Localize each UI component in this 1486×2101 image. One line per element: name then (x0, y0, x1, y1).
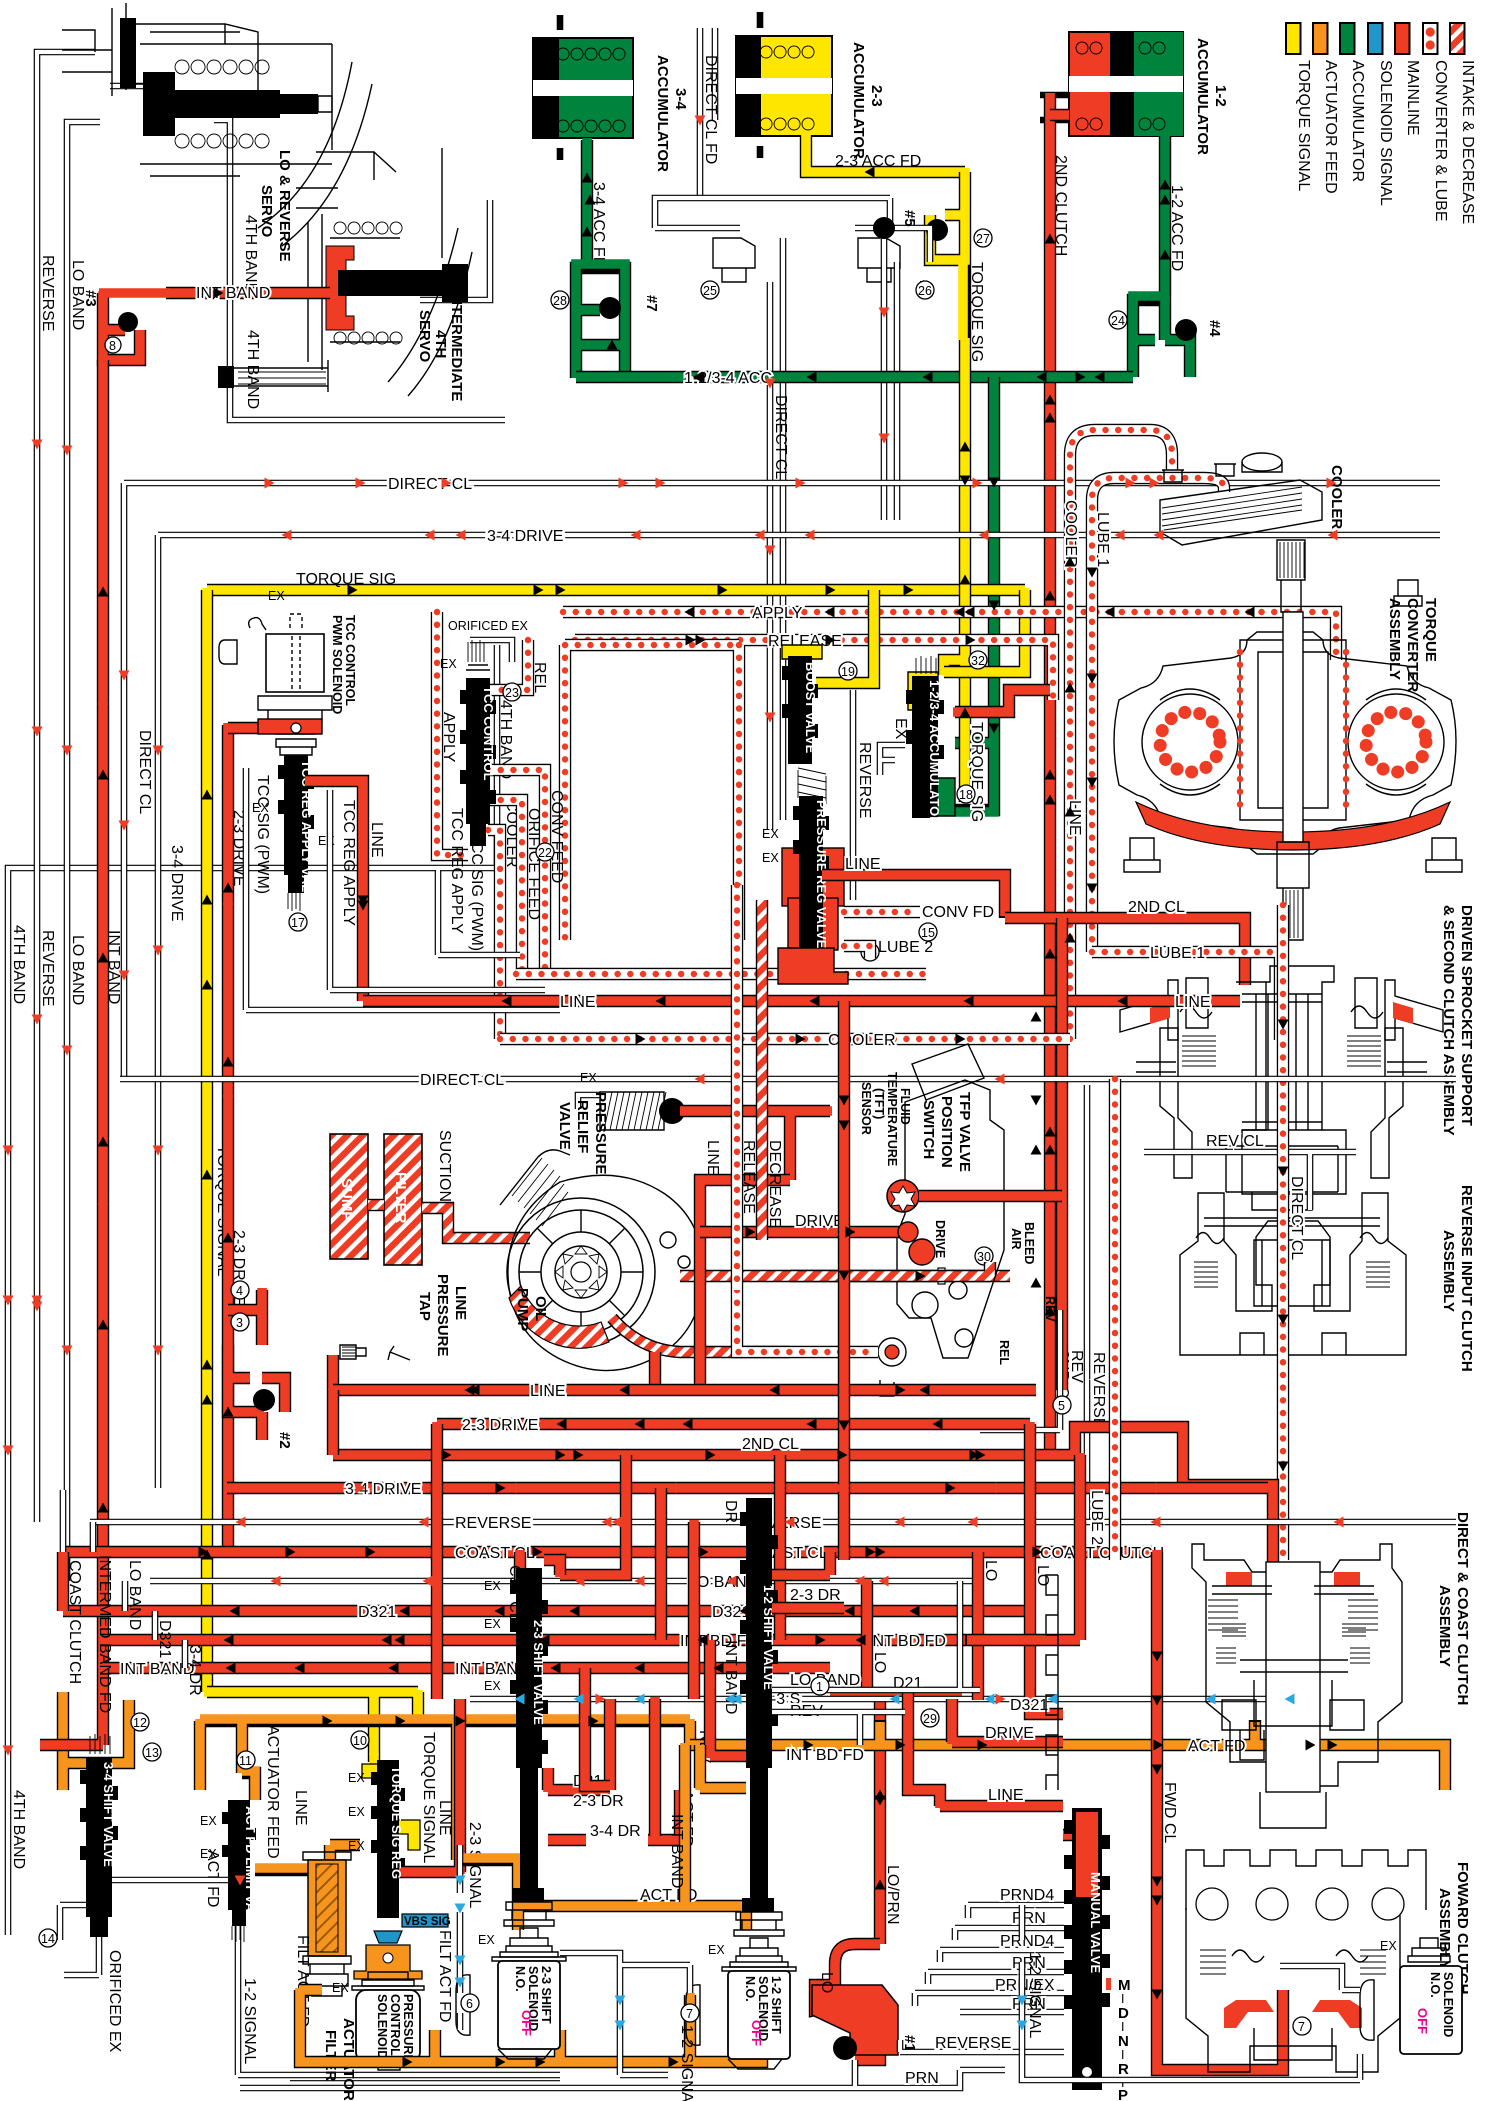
svg-text:LINE: LINE (452, 1286, 469, 1320)
yellow 2-3 ACC FD line (806, 136, 965, 172)
ACT FD LIMIT VALVE (222, 1771, 256, 1942)
mainline LINE right segment (1056, 918, 1068, 1390)
svg-text:18: 18 (959, 788, 973, 802)
ball #4 (1175, 319, 1197, 341)
mainline 3-4 DR stub (548, 1790, 680, 1840)
svg-text:PWM SOLENOID: PWM SOLENOID (330, 615, 344, 714)
pipe 4TH BAND (int servo right) (420, 200, 490, 300)
svg-text:4TH BAND: 4TH BAND (242, 215, 259, 294)
svg-text:DR: DR (722, 1500, 739, 1523)
converter&lube dotted APPLY horizontal (563, 612, 1336, 660)
orange stub into 1-2 valve (700, 1745, 746, 1788)
pipe left col feeds (63, 1490, 185, 1668)
svg-text:LO/PRN: LO/PRN (884, 1865, 901, 1925)
svg-text:TORQUE SIGNAL: TORQUE SIGNAL (1295, 60, 1312, 191)
svg-text:LINE: LINE (1066, 800, 1083, 836)
legend swatch TORQUE SIGNAL (1286, 23, 1301, 54)
svg-text:BLEED: BLEED (1022, 1222, 1036, 1264)
3-4 ACCUMULATOR (533, 15, 633, 160)
svg-text:VALVE: VALVE (556, 1102, 573, 1150)
svg-text:32: 32 (971, 654, 985, 668)
pipe REV valve (772, 1712, 905, 1745)
pipe PRND4 2 (940, 1950, 1064, 1962)
circled 11 (237, 1751, 255, 1769)
svg-text:2-3 SHIFT VALVE: 2-3 SHIFT VALVE (531, 1620, 546, 1725)
mainline 3-4 DRIVE bottom (227, 1482, 1268, 1494)
mainline vertical x844 (tfp drop) (838, 1001, 850, 1560)
svg-text:1-2 SIGNAL: 1-2 SIGNAL (241, 1978, 258, 2064)
mainline DRIVE stub (700, 1226, 908, 1238)
mainline 2-3 DRIVE vertical left (222, 725, 234, 1552)
actuator feed top rail (200, 1721, 690, 1860)
svg-text:EX: EX (348, 1839, 365, 1853)
svg-text:REL: REL (997, 1340, 1011, 1365)
svg-text:SENSOR: SENSOR (859, 1082, 873, 1135)
ball #5 (873, 217, 895, 239)
mainline INT BAND vertical (97, 360, 109, 1668)
svg-text:REVERSE: REVERSE (39, 255, 56, 331)
legend swatch MAINLINE (1395, 23, 1410, 54)
svg-text:CONVERTER: CONVERTER (1404, 598, 1421, 692)
1-2 SHIFT VALVE (734, 1498, 784, 1936)
torque signal yellow bottom elbow (207, 1692, 418, 1755)
flow arrows blue (455, 1694, 1295, 2006)
converter&lube LUBE 1 horizontal (1092, 952, 1280, 1040)
torque signal yellow right vertical from #6 (944, 340, 965, 802)
svg-text:4TH BAND: 4TH BAND (10, 925, 27, 1004)
flow arrows red (3, 478, 1136, 1886)
TCC REG APPLY VALVE (276, 739, 316, 911)
svg-text:ACTUATOR FEED: ACTUATOR FEED (264, 1725, 281, 1859)
svg-text:3-4 DR: 3-4 DR (590, 1823, 641, 1840)
pipe 2-3 S (470, 1696, 1310, 1703)
svg-text:REV: REV (1068, 1350, 1085, 1383)
mainline vertical x780 (774, 1455, 786, 1640)
circled 28 (551, 291, 569, 309)
svg-text:7: 7 (686, 2007, 693, 2021)
mainline vertical x520 (514, 1552, 526, 1590)
svg-text:1-2 SHIFT: 1-2 SHIFT (769, 1976, 783, 2034)
mainline vertical x867 (861, 1581, 873, 1693)
circled 8 (105, 337, 121, 353)
svg-text:12: 12 (133, 1716, 147, 1730)
svg-text:& SECOND CLUTCH ASSEMBLY: & SECOND CLUTCH ASSEMBLY (1440, 905, 1457, 1136)
mainline vertical x1080 (965, 1455, 1080, 1640)
BOOST VALVE (782, 645, 822, 764)
svg-text:SERVO: SERVO (416, 310, 433, 363)
svg-text:4TH BAND: 4TH BAND (244, 330, 261, 409)
pipe 4TH BAND left (8, 645, 497, 1935)
circled 32 (969, 651, 987, 669)
svg-text:SERVO: SERVO (258, 185, 275, 238)
mainline vertical x626 (560, 1455, 626, 1575)
circled 26 (916, 281, 934, 299)
mainline LINE bottom (333, 1384, 1036, 1396)
pipe REVERSE right vertical (1084, 1085, 1091, 1522)
svg-text:CONV FD: CONV FD (922, 904, 994, 921)
mainline vertical x655 (649, 1699, 661, 1836)
svg-text:EX: EX (484, 1579, 501, 1593)
svg-text:COOLER: COOLER (1328, 465, 1345, 529)
svg-text:OFF: OFF (519, 2010, 534, 2036)
TFP VALVE POSITION SWITCH (878, 1044, 1004, 1396)
svg-text:LUBE 1: LUBE 1 (1094, 512, 1111, 567)
circled 12 (131, 1713, 149, 1731)
pipe ORIFICED EX (470, 640, 512, 662)
svg-text:TCC SIG (PWM): TCC SIG (PWM) (468, 832, 485, 951)
svg-text:DRIVE: DRIVE (795, 1213, 844, 1230)
svg-text:INT BAND: INT BAND (668, 1814, 685, 1888)
svg-text:EX: EX (440, 657, 457, 671)
yellow #6 checkball loop (930, 172, 965, 340)
svg-text:REVERSE: REVERSE (1090, 1352, 1107, 1428)
right bank 1-2 shift solenoid (edge) (1360, 1938, 1462, 2054)
pipe PRN bottom (240, 2060, 1005, 2088)
svg-text:EX: EX (484, 1617, 501, 1631)
intake striped DECREASE vertical (756, 900, 768, 1240)
svg-text:VBS SIG: VBS SIG (404, 1916, 451, 1928)
svg-text:DIRECT & COAST CLUTCH: DIRECT & COAST CLUTCH (1454, 1512, 1471, 1705)
pipe 1-2 signal right (1022, 1905, 1360, 2080)
mainline to solenoid stem (228, 722, 320, 734)
green 1-2 ACC FD line (1159, 136, 1171, 300)
mainline tap stub (327, 1355, 339, 1390)
extra valve feed verticals (585, 1666, 685, 1902)
pipe 2-3 signal (457, 1845, 464, 2030)
svg-text:N.O.: N.O. (743, 1976, 757, 2002)
svg-text:ACCUMULATOR: ACCUMULATOR (1349, 60, 1366, 182)
pipe orificed ex (60, 1905, 99, 1975)
svg-text:POSITION: POSITION (938, 1096, 955, 1168)
svg-text:AIR: AIR (1009, 1228, 1023, 1250)
PRESSURE REG VALVE (778, 796, 848, 984)
svg-text:INT BAND: INT BAND (722, 1640, 739, 1714)
svg-text:3-4 ACC FD: 3-4 ACC FD (590, 182, 607, 268)
svg-text:REVERSE: REVERSE (935, 2035, 1011, 2052)
svg-text:3: 3 (236, 1316, 243, 1330)
mainline pump pressure out (655, 1180, 790, 1390)
svg-text:7: 7 (1298, 2020, 1305, 2034)
svg-text:EX: EX (200, 1814, 217, 1828)
mainline FWD CL vertical (1157, 1552, 1283, 2070)
mainline COAST CL (63, 1546, 1157, 1558)
circled 7b (1293, 2017, 1311, 2035)
mainline LO/PRN + #1 (815, 1944, 880, 2060)
circled 6 (461, 1994, 479, 2012)
svg-text:DIRECT CL: DIRECT CL (136, 730, 153, 814)
svg-text:ASSEMBLY: ASSEMBLY (1440, 1230, 1457, 1312)
svg-text:LO BAND: LO BAND (126, 1560, 143, 1630)
svg-text:2-3 SHIFT: 2-3 SHIFT (539, 1966, 553, 2024)
circled 24 (1109, 311, 1127, 329)
svg-text:1-2 SIGNAL: 1-2 SIGNAL (678, 2025, 695, 2101)
svg-text:LINE: LINE (368, 822, 385, 858)
svg-text:EX: EX (332, 1981, 349, 1995)
svg-text:ACT FD: ACT FD (1188, 1738, 1245, 1755)
converter&lube dotted CONV FEED branch (488, 770, 545, 974)
green 3-4 ACC FD line (581, 140, 593, 268)
DRIVEN SPROCKET SUPPORT & SECOND CLUTCH ASSEMBLY (1120, 966, 1443, 1210)
svg-text:5: 5 (1058, 1399, 1065, 1413)
converter&lube dotted COOLER branch (488, 830, 500, 1039)
svg-text:2ND CL: 2ND CL (1128, 899, 1185, 916)
INTERMEDIATE 4TH SERVO drawing (296, 148, 472, 396)
pipe REVERSE left (37, 52, 95, 1522)
mainline stubs at 1-2 valve (772, 1552, 844, 1608)
svg-text:REVERSE INPUT CLUTCH: REVERSE INPUT CLUTCH (1458, 1185, 1475, 1372)
intake striped pump outlet (612, 1276, 1010, 1352)
mainline 2ND CL bottom (333, 1427, 1273, 1565)
spring between valves (798, 768, 826, 804)
svg-text:ACCUMULATOR: ACCUMULATOR (654, 55, 671, 172)
svg-text:MAINLINE: MAINLINE (1404, 60, 1421, 136)
svg-text:1-2 ACC FD: 1-2 ACC FD (1168, 185, 1185, 271)
mainline stub to 1-2 accumulator (1050, 109, 1069, 121)
svg-text:DRIVEN SPROCKET SUPPORT: DRIVEN SPROCKET SUPPORT (1458, 905, 1475, 1126)
svg-text:LUBE 2: LUBE 2 (1088, 1490, 1105, 1545)
mainline vertical x661 (655, 1488, 667, 1640)
svg-text:#5: #5 (901, 210, 918, 227)
dotted RELEASE vertical (731, 885, 743, 1290)
pipe PRN 3 (960, 2009, 1064, 2016)
svg-text:COAST CLUTCH: COAST CLUTCH (66, 1560, 83, 1684)
mainline LINE vertical (TCC) (305, 781, 363, 1001)
svg-text:ORIFICED EX: ORIFICED EX (106, 1950, 123, 2053)
circled 22 (536, 843, 554, 861)
svg-text:LO BAND: LO BAND (69, 935, 86, 1005)
svg-text:ORIFICED EX: ORIFICED EX (448, 619, 529, 633)
svg-text:30: 30 (977, 1250, 991, 1264)
svg-text:29: 29 (923, 1712, 937, 1726)
green #4 checkball loop (1133, 300, 1190, 377)
svg-text:3-4 DRIVE: 3-4 DRIVE (168, 845, 185, 921)
svg-text:EX: EX (348, 1771, 365, 1785)
pipe servo stub 1 (110, 83, 150, 90)
svg-text:EX: EX (478, 1933, 495, 1947)
actuator feed vertical x685 (679, 1745, 691, 1902)
TORQUE CONVERTER ASSEMBLY body (1114, 580, 1462, 940)
svg-text:DIRECT CL: DIRECT CL (1288, 1176, 1305, 1260)
svg-text:10: 10 (353, 1734, 367, 1748)
converter&lube LUBE 2 vertical (1109, 1079, 1121, 1560)
svg-text:4TH: 4TH (432, 330, 449, 358)
mainline D21 stub (548, 1699, 610, 1790)
legend swatch ACTUATOR FEED (1313, 23, 1328, 54)
circled 18 (957, 785, 975, 803)
svg-text:TCC SIG (PWM): TCC SIG (PWM) (254, 775, 271, 894)
svg-text:MANUAL VALVE: MANUAL VALVE (1088, 1872, 1103, 1973)
mainline 2ND CLUTCH vertical (1044, 95, 1056, 1455)
mainline INT BAND (103, 1662, 830, 1674)
svg-text:LINE: LINE (560, 994, 596, 1011)
svg-text:D321: D321 (156, 1620, 173, 1658)
converter&lube dotted ORIFICE FEED branch (488, 800, 522, 974)
svg-text:22: 22 (538, 846, 552, 860)
svg-text:ASSEMBLY: ASSEMBLY (1386, 598, 1403, 680)
ball #6 (926, 219, 948, 241)
circled 7 (681, 2004, 699, 2022)
svg-text:ACCUMULATOR: ACCUMULATOR (850, 42, 867, 159)
PRESSURE CONTROL SOLENOID (352, 1972, 424, 2070)
mainline INT BD FD (100, 1634, 965, 1646)
1-2/3-4 ACCUMULATOR (valve body) (906, 656, 955, 818)
pipe PRN 2 (928, 1972, 1064, 1984)
svg-text:TCC CONTROL: TCC CONTROL (481, 686, 496, 781)
svg-text:3-4 SHIFT VALVE: 3-4 SHIFT VALVE (101, 1762, 116, 1867)
svg-text:DIRECT CL: DIRECT CL (772, 395, 789, 479)
pipe 4TH BAND top (from LO&REV servo) (214, 120, 505, 420)
svg-text:13: 13 (145, 1746, 159, 1760)
svg-text:LUBE 1: LUBE 1 (1150, 945, 1205, 962)
circled 5 (1053, 1396, 1071, 1414)
svg-text:LO: LO (818, 1972, 835, 1993)
svg-text:D321: D321 (358, 1604, 396, 1621)
svg-text:INT BD FD: INT BD FD (868, 1633, 946, 1650)
pipe to check seats (655, 198, 930, 262)
circled 30 (975, 1247, 993, 1265)
svg-text:COAST CLUTCH: COAST CLUTCH (1040, 1545, 1164, 1562)
svg-text:TEMPERATURE: TEMPERATURE (885, 1072, 899, 1166)
svg-text:N.O.: N.O. (1428, 1972, 1442, 1998)
MANUAL VALVE body (1046, 1575, 1110, 2090)
svg-text:1-2: 1-2 (1212, 85, 1229, 107)
svg-text:2-3: 2-3 (868, 85, 885, 107)
svg-text:19: 19 (841, 665, 855, 679)
pipe REV CL (1144, 1152, 1356, 1210)
mainline vertical x333 (327, 1390, 339, 1455)
svg-text:TORQUE SIGNAL: TORQUE SIGNAL (420, 1732, 437, 1863)
svg-text:1-2/3-4 ACCUMULATOR: 1-2/3-4 ACCUMULATOR (927, 680, 942, 826)
svg-text:15: 15 (921, 926, 935, 940)
svg-text:ASSEMBLY: ASSEMBLY (1436, 1585, 1453, 1667)
svg-text:LINE: LINE (292, 1790, 309, 1826)
svg-text:EX: EX (200, 1847, 217, 1861)
SUMP box (330, 1134, 368, 1259)
circled 16 (861, 943, 879, 961)
svg-text:8: 8 (109, 339, 116, 353)
mainline D21 right (830, 1693, 960, 1944)
svg-text:CONTROL: CONTROL (388, 1994, 402, 2056)
svg-text:3-4: 3-4 (672, 88, 689, 110)
svg-text:4: 4 (236, 1284, 243, 1298)
2-3 SHIFT VALVE (504, 1560, 560, 1926)
converter&lube dotted loop rectangle (565, 645, 739, 940)
svg-text:PRN: PRN (905, 2070, 939, 2087)
svg-text:TORQUE SIG: TORQUE SIG (968, 722, 985, 822)
svg-text:TORQUE SIG REG: TORQUE SIG REG (389, 1766, 404, 1879)
OIL PUMP (500, 1150, 703, 1371)
svg-text:LINE: LINE (845, 856, 881, 873)
mainline vertical x978 (972, 1552, 984, 1700)
pipe PRND4 (968, 1905, 1064, 1918)
legend swatch INTAKE & DECREASE (1450, 23, 1465, 54)
svg-text:PRESSURE: PRESSURE (434, 1274, 451, 1357)
svg-text:REVERSE: REVERSE (455, 1515, 531, 1532)
ball #7 (599, 297, 621, 319)
svg-text:LO & REVERSE: LO & REVERSE (276, 150, 293, 262)
svg-text:(TFT): (TFT) (872, 1088, 886, 1119)
circled 13 (143, 1743, 161, 1761)
pipe PRN/EX (915, 1993, 1064, 2006)
svg-text:LINE: LINE (988, 1787, 1024, 1804)
torque signal elbow at right end (944, 590, 1025, 672)
pipe 3-4 DRIVE horizontal (158, 535, 1440, 1488)
svg-text:ACCUMULATOR: ACCUMULATOR (1194, 38, 1211, 155)
svg-text:DIRECT CL: DIRECT CL (420, 1072, 504, 1089)
svg-text:1-2 SHIFT VALVE: 1-2 SHIFT VALVE (761, 1585, 776, 1690)
LINE PRESSURE TAP (340, 1345, 410, 1360)
svg-text:EX: EX (762, 827, 779, 841)
pipe REVERSE mv (900, 2040, 1064, 2052)
circled 17 (289, 913, 307, 931)
pipe DIRECT CL horizontal (124, 483, 1440, 1079)
svg-text:28: 28 (553, 294, 567, 308)
ball #3 (118, 312, 138, 332)
svg-text:RELEASE: RELEASE (740, 1140, 757, 1214)
svg-text:3-4 DR: 3-4 DR (186, 1645, 203, 1696)
red #3 checkball loop (103, 293, 140, 360)
svg-text:LINE: LINE (436, 1800, 453, 1836)
converter&lube CONV FD stub (844, 906, 920, 918)
pipe from #5 down (884, 239, 897, 520)
pipe REVERSE bottom (90, 1519, 1456, 1526)
converter&lube DIRECT CL vertical (right) (1054, 800, 1305, 1560)
circled 3 (231, 1313, 249, 1331)
converter&lube COOLER vertical riser (1070, 430, 1172, 1039)
svg-text:APPLY: APPLY (440, 712, 457, 763)
torque signal yellow horizontal TORQUE SIG (207, 584, 1025, 596)
orange link to torque sig reg (255, 1845, 360, 1870)
svg-text:INTERMED BAND FD: INTERMED BAND FD (96, 1555, 113, 1713)
circled 14 (39, 1929, 57, 1947)
mainline DRIVE to manual valve (952, 1699, 1063, 1742)
svg-text:BOOST VALVE: BOOST VALVE (803, 662, 818, 754)
FILTER box (384, 1134, 422, 1265)
svg-text:CONV FEED: CONV FEED (548, 790, 565, 883)
svg-text:APPLY: APPLY (752, 605, 803, 622)
svg-text:SUCTION: SUCTION (436, 1130, 453, 1202)
pipe LO BAND valve (772, 1581, 980, 1690)
svg-text:OFF: OFF (1415, 2008, 1430, 2034)
svg-text:REL: REL (531, 662, 548, 693)
mainline vertical x437 (431, 1424, 443, 1699)
intake striped SUCTION to pump (422, 1208, 530, 1238)
svg-text:17: 17 (291, 916, 305, 930)
svg-text:LINE: LINE (1175, 994, 1211, 1011)
svg-text:SOLENOID: SOLENOID (1441, 1972, 1455, 2037)
svg-text:FLUID: FLUID (898, 1088, 912, 1125)
svg-text:1-2 SIGNAL: 1-2 SIGNAL (1026, 1952, 1043, 2038)
svg-text:#4: #4 (1206, 320, 1223, 337)
circled 29 (921, 1709, 939, 1727)
svg-text:3-4 DRIVE: 3-4 DRIVE (487, 528, 563, 545)
svg-text:INT BAND: INT BAND (196, 285, 270, 302)
svg-text:27: 27 (976, 232, 990, 246)
circled 27 (974, 229, 992, 247)
svg-text:PUMP: PUMP (514, 1288, 531, 1331)
svg-text:I: I (1121, 2020, 1124, 2034)
TCC CONTROL valve (460, 640, 496, 846)
svg-text:#2: #2 (276, 1432, 293, 1449)
red INT BAND line to servo (166, 287, 330, 299)
svg-text:#7: #7 (643, 295, 660, 312)
svg-text:2-3 DR: 2-3 DR (573, 1793, 624, 1810)
svg-text:RELIEF: RELIEF (574, 1100, 591, 1153)
svg-text:TORQUE SIG: TORQUE SIG (296, 571, 396, 588)
flow arrows black (202, 372, 1316, 2068)
ball #2 (253, 1389, 275, 1411)
svg-text:FILT ACT FD: FILT ACT FD (436, 1930, 453, 2022)
